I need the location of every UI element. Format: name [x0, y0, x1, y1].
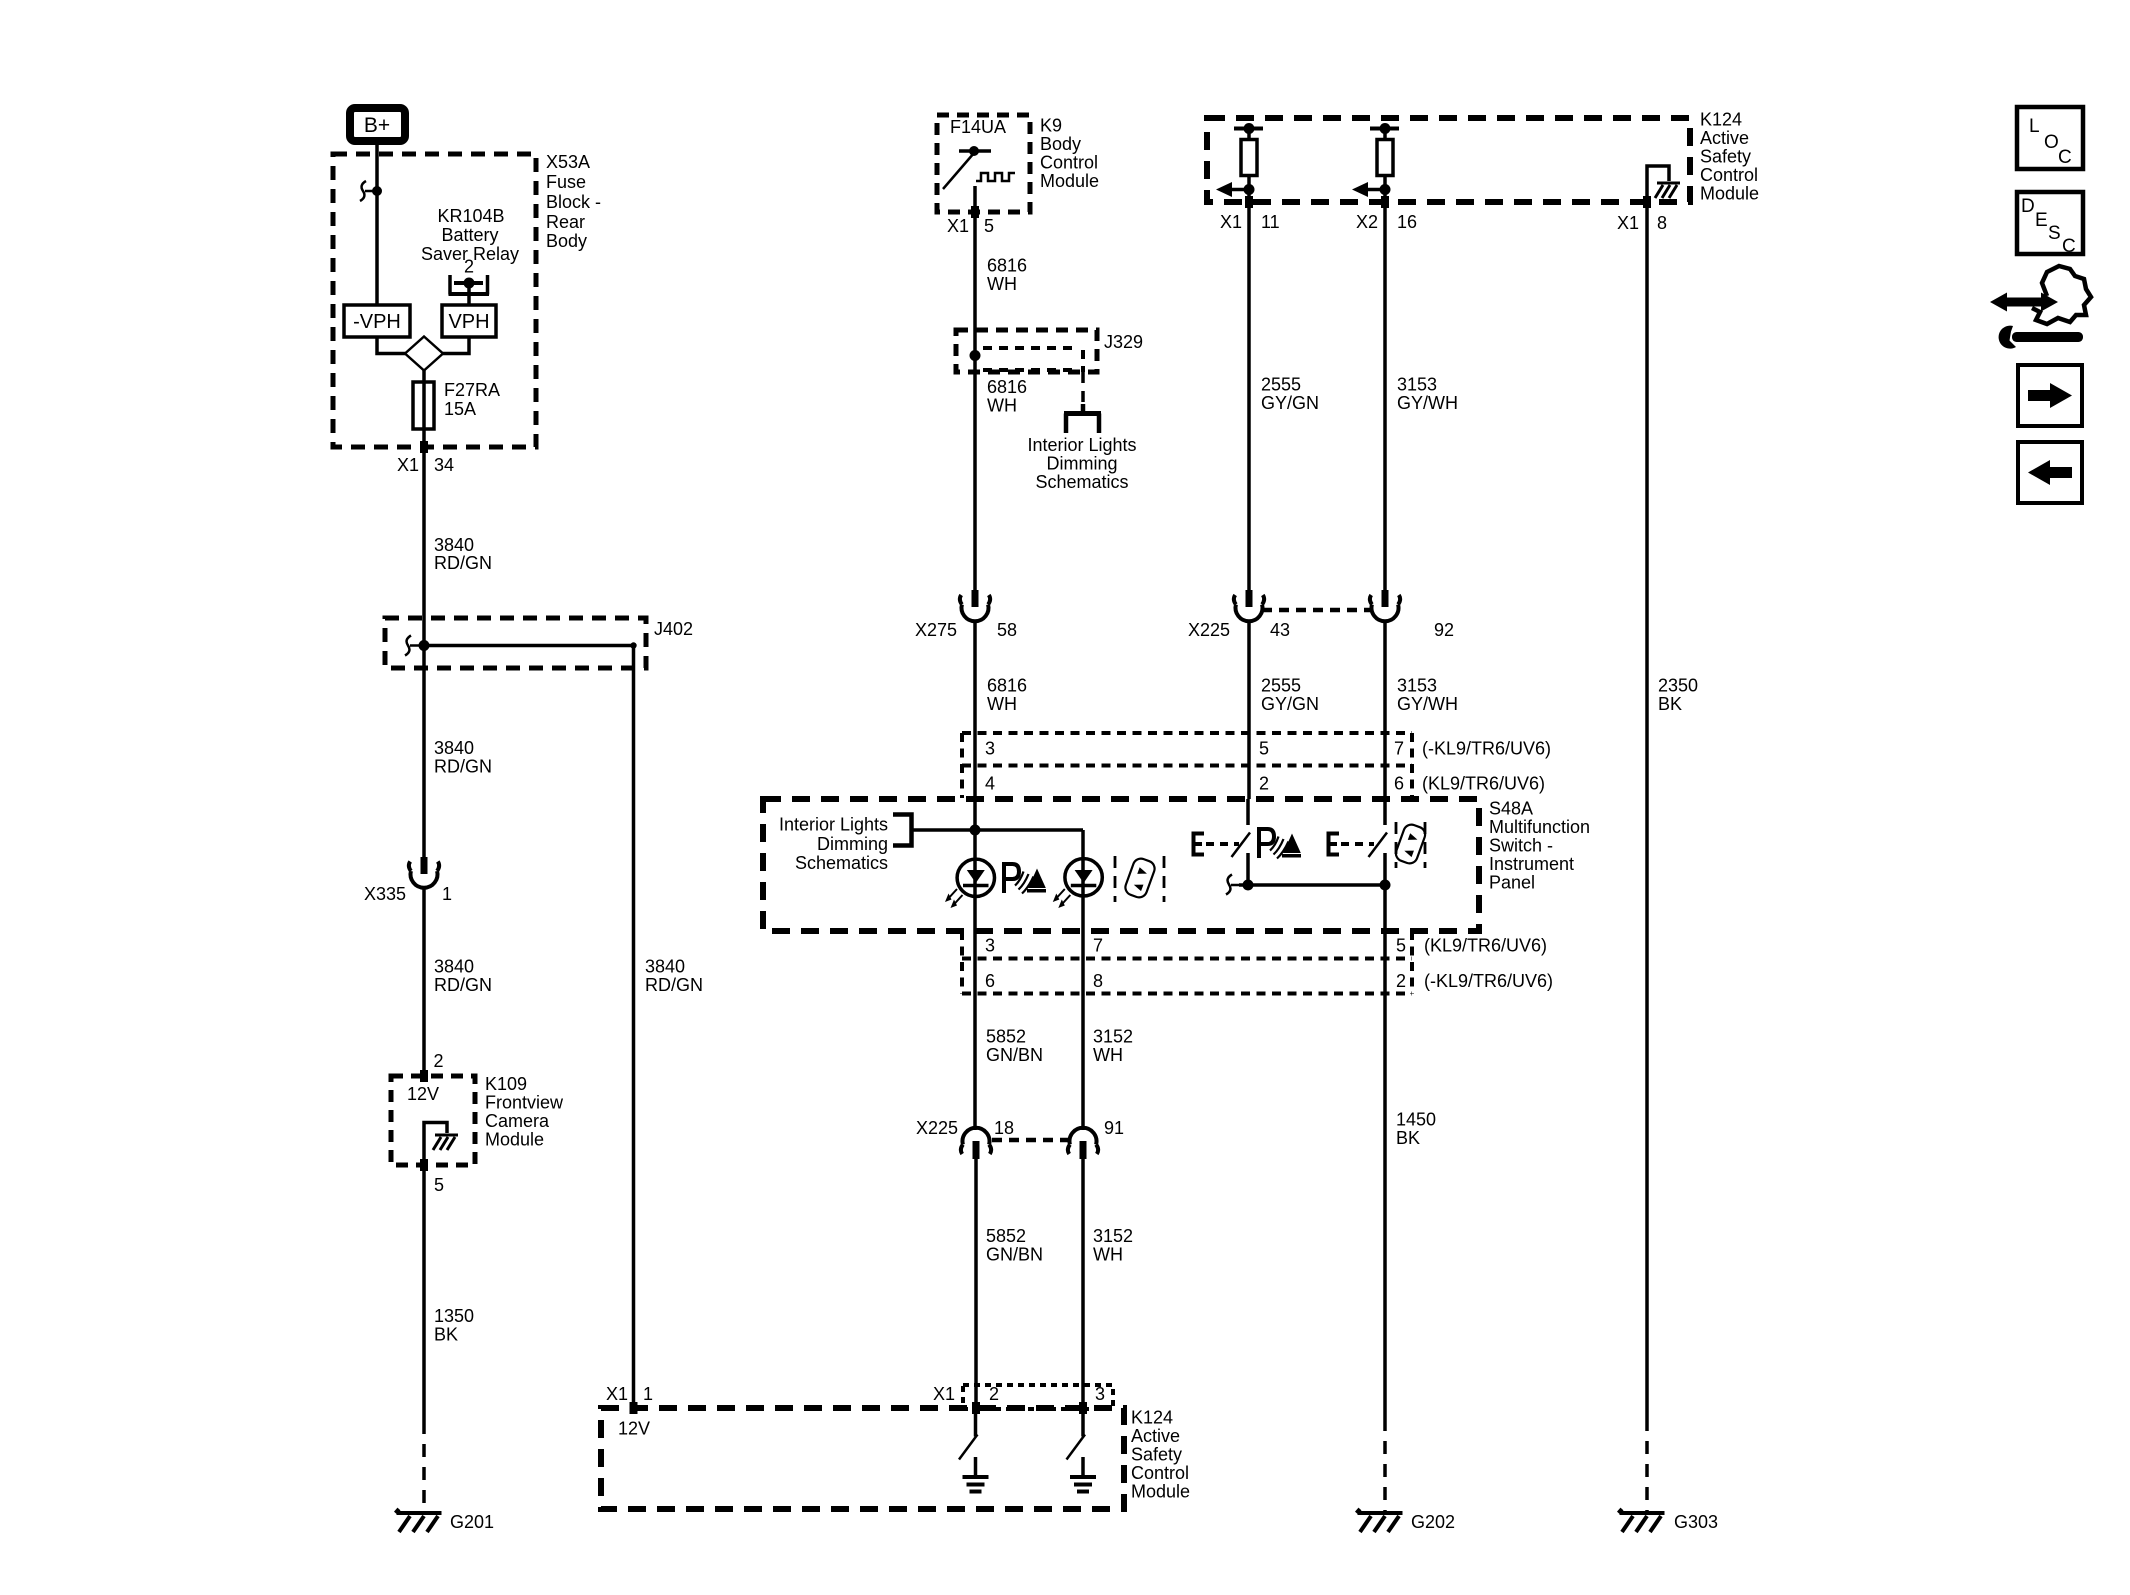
wire K124 X1-11 to X225-43 — [1247, 202, 1251, 590]
svg-text:Camera: Camera — [485, 1111, 550, 1131]
pin tick K124 X1-8 — [1643, 196, 1651, 208]
svg-text:3152: 3152 — [1093, 1226, 1133, 1246]
svg-text:GY/GN: GY/GN — [1261, 694, 1319, 714]
svg-text:GN/BN: GN/BN — [986, 1045, 1043, 1065]
svg-text:X225: X225 — [916, 1118, 958, 1138]
wire LED2 to X225-91 — [1081, 931, 1085, 1130]
svg-text:K109: K109 — [485, 1074, 527, 1094]
svg-text:5852: 5852 — [986, 1027, 1026, 1047]
svg-text:X1: X1 — [606, 1384, 628, 1404]
svg-text:(KL9/TR6/UV6): (KL9/TR6/UV6) — [1422, 774, 1545, 794]
connector X275 pin 58 — [960, 590, 990, 621]
svg-text:5: 5 — [434, 1175, 444, 1195]
svg-text:X335: X335 — [364, 884, 406, 904]
wire K109 to G201 — [422, 1165, 426, 1421]
svg-text:92: 92 — [1434, 620, 1454, 640]
svg-text:(KL9/TR6/UV6): (KL9/TR6/UV6) — [1424, 936, 1547, 956]
battery terminal B+ — [350, 108, 405, 141]
svg-text:Interior Lights: Interior Lights — [779, 815, 888, 835]
svg-text:6: 6 — [985, 971, 995, 991]
pin tick K124 X1-3 — [1079, 1402, 1087, 1414]
svg-text:12V: 12V — [407, 1084, 439, 1104]
pin label X1 5 — [947, 216, 994, 236]
svg-text:K124: K124 — [1131, 1408, 1173, 1428]
wire X225-92 to S48A — [1383, 622, 1387, 799]
wire -VPH to diamond — [377, 337, 405, 354]
connector X225 pin 92 — [1370, 590, 1400, 621]
svg-text:X1: X1 — [933, 1384, 955, 1404]
icon park assist 2 — [1259, 829, 1301, 859]
pin tick K109 pin 2 — [420, 1070, 428, 1082]
svg-text:6816: 6816 — [987, 377, 1027, 397]
svg-text:2: 2 — [989, 1384, 999, 1404]
dashed wire to G303 — [1645, 1418, 1649, 1513]
svg-text:6816: 6816 — [987, 676, 1027, 696]
clip symbol in J402 — [405, 636, 424, 656]
svg-text:3153: 3153 — [1397, 375, 1437, 395]
wire label 3840 RD/GN — [434, 957, 492, 996]
dashed wire to G201 — [422, 1421, 426, 1513]
wire label 3153 GY/WH — [1397, 375, 1458, 414]
icon lane keep 2 — [1394, 822, 1428, 868]
dotted connector rect X1 2-3 — [963, 1385, 1113, 1409]
wire X225-18 to K124 — [974, 1159, 978, 1408]
link wire between switches — [1239, 883, 1385, 887]
terminal box VPH — [442, 305, 496, 337]
label S48A Multifunction Switch - Instrument Panel — [1489, 799, 1590, 893]
svg-text:3153: 3153 — [1397, 676, 1437, 696]
pin tick F14UA X1-5 — [971, 206, 979, 218]
svg-text:C: C — [2058, 147, 2072, 168]
label K109 Frontview Camera Module — [485, 1074, 564, 1150]
arrow terminal R1 — [1216, 182, 1255, 197]
svg-text:Module: Module — [1700, 184, 1759, 204]
svg-text:15A: 15A — [444, 399, 476, 419]
svg-text:Module: Module — [485, 1130, 544, 1150]
svg-text:7: 7 — [1394, 739, 1404, 759]
svg-text:GN/BN: GN/BN — [986, 1245, 1043, 1265]
wire diamond to fuse — [422, 370, 426, 447]
svg-text:3152: 3152 — [1093, 1027, 1133, 1047]
svg-text:18: 18 — [994, 1118, 1014, 1138]
svg-text:B+: B+ — [364, 114, 390, 137]
pin tick K124 X1-11 — [1245, 196, 1253, 208]
svg-text:G201: G201 — [450, 1512, 494, 1532]
clip symbol at switch link — [1226, 875, 1239, 895]
svg-text:8: 8 — [1657, 213, 1667, 233]
wire label 6816 WH — [987, 256, 1027, 295]
bracket to dimming label — [893, 815, 912, 846]
svg-text:K9: K9 — [1040, 116, 1062, 136]
svg-text:WH: WH — [987, 396, 1017, 416]
pin tick K124 X1-2 — [972, 1402, 980, 1414]
svg-text:D: D — [2021, 196, 2035, 217]
label relay KR104B Battery Saver Relay — [421, 206, 519, 277]
node junction J402 — [419, 640, 430, 651]
svg-text:Safety: Safety — [1131, 1445, 1182, 1465]
node small dot at J402 branch corner — [630, 642, 636, 648]
svg-text:X225: X225 — [1188, 620, 1230, 640]
label F27RA 15A — [444, 380, 500, 419]
pin tick K109 pin 5 — [420, 1159, 428, 1171]
svg-text:X1: X1 — [1220, 212, 1242, 232]
fuse block X53A dashed box — [333, 154, 536, 447]
resistor R1 in K124 — [1234, 123, 1263, 202]
svg-text:Control: Control — [1131, 1463, 1189, 1483]
svg-text:Instrument: Instrument — [1489, 854, 1574, 874]
svg-text:3: 3 — [985, 936, 995, 956]
wire VPH to diamond — [443, 337, 469, 354]
node junction switch1 — [1243, 880, 1254, 891]
wire X275 to S48A — [973, 622, 977, 830]
resistor R2 in K124 — [1370, 123, 1399, 202]
svg-text:Control: Control — [1700, 165, 1758, 185]
svg-text:X275: X275 — [915, 620, 957, 640]
wire LED1 to X225-18 — [973, 931, 977, 1130]
K109 internal chassis ground — [433, 1135, 458, 1150]
svg-text:GY/WH: GY/WH — [1397, 393, 1458, 413]
svg-text:X1: X1 — [397, 455, 419, 475]
wire K124 X2-16 to X225-92 — [1383, 202, 1387, 590]
K124 internal chassis ground (X1-8) — [1647, 166, 1680, 202]
svg-text:Dimming: Dimming — [817, 834, 888, 854]
svg-text:1: 1 — [643, 1384, 653, 1404]
wire label 5852 GN/BN — [986, 1027, 1043, 1066]
off-page bracket (interior lights dimming) — [1064, 404, 1101, 433]
wire X225-43 to S48A — [1247, 622, 1251, 799]
svg-text:Safety: Safety — [1700, 147, 1751, 167]
svg-text:91: 91 — [1104, 1118, 1124, 1138]
connector X225 pin 18 (flipped) — [961, 1128, 991, 1159]
LED2 lane keep indicator — [1053, 859, 1103, 908]
svg-text:RD/GN: RD/GN — [434, 975, 492, 995]
svg-text:Control: Control — [1040, 153, 1098, 173]
wire label 2350 BK — [1658, 676, 1698, 715]
top rows pin numbers — [985, 739, 1551, 794]
wire label 3152 WH — [1093, 1226, 1133, 1265]
svg-text:3840: 3840 — [645, 957, 685, 977]
dashed wire J329 to schematics bracket — [1081, 372, 1085, 404]
wire K124 X1-8 to G303 — [1645, 202, 1649, 1418]
svg-text:16: 16 — [1397, 212, 1417, 232]
switch S48A dashed box — [763, 799, 1479, 931]
svg-text:3840: 3840 — [434, 535, 474, 555]
svg-text:Dimming: Dimming — [1046, 454, 1117, 474]
bottom rows pin numbers — [985, 936, 1553, 992]
svg-text:3840: 3840 — [434, 738, 474, 758]
svg-text:5852: 5852 — [986, 1226, 1026, 1246]
svg-text:J329: J329 — [1104, 332, 1143, 352]
svg-text:11: 11 — [1261, 212, 1280, 232]
label X335 1 — [364, 884, 452, 904]
wire label 3153 GY/WH — [1397, 676, 1458, 715]
dashed connector link X225 top — [1262, 608, 1372, 613]
wire label 6816 WH — [987, 676, 1027, 715]
svg-text:Fuse: Fuse — [546, 172, 586, 192]
arrow terminal R2 — [1352, 182, 1391, 197]
svg-text:Schematics: Schematics — [795, 853, 888, 873]
splice diamond — [405, 337, 443, 371]
connector X335 pin 1 — [409, 857, 439, 888]
svg-text:(-KL9/TR6/UV6): (-KL9/TR6/UV6) — [1424, 971, 1553, 991]
node junction on B+ feed — [372, 186, 382, 196]
wire B+ to -VPH — [375, 145, 379, 305]
connector X225 pin 91 (flipped) — [1068, 1128, 1098, 1159]
wire J402 branch to right and down — [424, 646, 634, 1409]
icon park assist (P with waves and triangle) — [1004, 864, 1046, 894]
terminal box -VPH — [344, 305, 410, 337]
fuse element F14UA — [943, 146, 1015, 212]
pin label X1 1 — [606, 1384, 653, 1404]
top connector rows (KL9/TR6/UV6) — [962, 733, 1412, 798]
svg-text:RD/GN: RD/GN — [645, 975, 703, 995]
icon box LOC — [2017, 107, 2083, 169]
label Interior Lights Dimming Schematics (S48A) — [779, 815, 888, 874]
svg-text:2555: 2555 — [1261, 676, 1301, 696]
svg-text:X1: X1 — [1617, 213, 1639, 233]
svg-text:BK: BK — [434, 1325, 458, 1345]
fuse F14UA / K9 dashed box — [937, 115, 1030, 212]
wire F14UA to X275 — [973, 212, 977, 590]
svg-text:F27RA: F27RA — [444, 380, 500, 400]
splice J402 dashed box — [385, 618, 646, 668]
icon box DESC — [2017, 192, 2083, 257]
pin label X1 34 — [397, 455, 454, 475]
label X53A Fuse Block - Rear Body — [546, 152, 601, 251]
svg-text:1350: 1350 — [434, 1306, 474, 1326]
svg-text:WH: WH — [987, 694, 1017, 714]
label X225 18 91 — [916, 1118, 1124, 1138]
switch1 actuator E-- — [1194, 834, 1240, 855]
fuse F27RA 15A — [413, 382, 434, 429]
svg-text:E: E — [2035, 210, 2048, 231]
connector X225 pin 43 — [1234, 590, 1264, 621]
wire label 3152 WH — [1093, 1027, 1133, 1066]
svg-text:GY/WH: GY/WH — [1397, 694, 1458, 714]
pin tick X53A X1-34 — [420, 441, 428, 453]
wire through LED1 — [973, 830, 977, 931]
svg-text:Module: Module — [1131, 1482, 1190, 1502]
svg-text:F14UA: F14UA — [950, 117, 1006, 137]
svg-text:(-KL9/TR6/UV6): (-KL9/TR6/UV6) — [1422, 739, 1551, 759]
svg-text:G303: G303 — [1674, 1512, 1718, 1532]
svg-text:Switch -: Switch - — [1489, 836, 1553, 856]
wire label 3840 RD/GN — [434, 535, 492, 573]
svg-text:3: 3 — [985, 739, 995, 759]
svg-text:VPH: VPH — [448, 311, 489, 333]
svg-text:5: 5 — [984, 216, 994, 236]
wire label 6816 WH — [987, 377, 1027, 416]
svg-text:WH: WH — [987, 274, 1017, 294]
svg-text:X2: X2 — [1356, 212, 1378, 232]
label X225 43 92 — [1188, 620, 1454, 640]
svg-text:RD/GN: RD/GN — [434, 553, 492, 573]
svg-text:Block -: Block - — [546, 192, 601, 212]
svg-text:C: C — [2062, 236, 2076, 257]
LED1 park assist indicator — [945, 859, 995, 908]
svg-text:Multifunction: Multifunction — [1489, 817, 1590, 837]
svg-text:58: 58 — [997, 620, 1017, 640]
K109 internal wire to chassis ground — [424, 1123, 447, 1166]
svg-text:Rear: Rear — [546, 212, 585, 232]
svg-text:2: 2 — [1396, 971, 1406, 991]
svg-text:2: 2 — [1259, 774, 1269, 794]
wire label 2555 GY/GN — [1261, 375, 1319, 414]
wire label 5852 GN/BN — [986, 1226, 1043, 1265]
splice J329 dashed box — [956, 330, 1097, 372]
label X275 58 — [915, 620, 1017, 640]
svg-text:2555: 2555 — [1261, 375, 1301, 395]
switch2 actuator E-- — [1329, 834, 1375, 855]
svg-text:6816: 6816 — [987, 256, 1027, 276]
icon lane keep assist (car between lane lines) — [1115, 856, 1164, 902]
wire label 1350 BK — [434, 1306, 474, 1345]
svg-text:KR104B: KR104B — [437, 206, 504, 226]
switch contact 2 (lane keep) in S48A — [1369, 799, 1388, 931]
svg-text:S48A: S48A — [1489, 799, 1533, 819]
svg-text:6: 6 — [1394, 774, 1404, 794]
svg-text:J402: J402 — [654, 619, 693, 639]
svg-text:RD/GN: RD/GN — [434, 757, 492, 777]
svg-text:GY/GN: GY/GN — [1261, 393, 1319, 413]
wire corner to LED2 — [1081, 830, 1085, 931]
relay KR104B terminal 2 symbol — [449, 275, 490, 305]
module K124 top dashed box — [1207, 118, 1690, 202]
svg-text:WH: WH — [1093, 1045, 1123, 1065]
icon box prev arrow — [2018, 442, 2082, 503]
wire label 3840 RD/GN — [434, 738, 492, 777]
svg-text:L: L — [2029, 116, 2040, 137]
switch to ground 1 in K124 — [959, 1408, 989, 1492]
svg-text:Active: Active — [1700, 128, 1749, 148]
svg-text:O: O — [2044, 132, 2059, 153]
node junction J329 — [970, 350, 981, 361]
svg-text:1: 1 — [442, 884, 452, 904]
svg-text:5: 5 — [1396, 936, 1406, 956]
svg-text:2350: 2350 — [1658, 676, 1698, 696]
pin tick K124 X2-16 — [1381, 196, 1389, 208]
svg-text:8: 8 — [1093, 971, 1103, 991]
bottom connector rows (KL9/TR6/UV6) — [962, 931, 1412, 994]
svg-text:X53A: X53A — [546, 152, 590, 172]
svg-text:12V: 12V — [618, 1419, 650, 1439]
ground G303 — [1619, 1509, 1665, 1532]
node junction switch2 — [1380, 880, 1391, 891]
module K109 dashed box — [391, 1076, 475, 1165]
svg-text:Body: Body — [1040, 134, 1081, 154]
svg-text:WH: WH — [1093, 1245, 1123, 1265]
ground G201 — [396, 1509, 442, 1532]
wire bracket to LED wires — [912, 828, 1084, 832]
pin labels X1 2 3 — [933, 1384, 1105, 1404]
svg-text:2: 2 — [434, 1051, 444, 1071]
label Interior Lights Dimming Schematics — [1027, 435, 1136, 492]
svg-text:2: 2 — [464, 257, 474, 277]
svg-text:Active: Active — [1131, 1426, 1180, 1446]
svg-text:-VPH: -VPH — [353, 311, 401, 333]
dashed connector link X225 — [992, 1138, 1068, 1143]
icon connector repair (arrow, outline, wrench) — [1990, 266, 2091, 349]
svg-text:34: 34 — [434, 455, 454, 475]
J329 internal dashed bus — [983, 348, 1083, 372]
wire X225-91 to K124 — [1081, 1159, 1085, 1408]
module K124 bottom dashed box — [601, 1408, 1124, 1509]
clip symbol on B+ feed — [360, 181, 377, 201]
svg-text:Module: Module — [1040, 171, 1099, 191]
svg-text:3840: 3840 — [434, 957, 474, 977]
svg-text:Panel: Panel — [1489, 873, 1535, 893]
wire label 3840 RD/GN (branch) — [645, 957, 703, 996]
svg-text:5: 5 — [1259, 739, 1269, 759]
svg-text:X1: X1 — [947, 216, 969, 236]
switch contact 1 (park assist) in S48A — [1232, 799, 1251, 885]
label K124 Active Safety Control Module (bottom) — [1131, 1408, 1190, 1502]
svg-text:Frontview: Frontview — [485, 1093, 564, 1113]
svg-text:Battery: Battery — [441, 225, 498, 245]
wire S48A switch2 to G202 — [1383, 931, 1387, 1418]
svg-text:3: 3 — [1095, 1384, 1105, 1404]
svg-text:Interior Lights: Interior Lights — [1027, 435, 1136, 455]
label K124 Active Safety Control Module (top) — [1700, 110, 1759, 204]
wire X335 to K109 — [422, 889, 426, 1076]
dashed wire to G202 — [1383, 1418, 1387, 1513]
pin labels X1 11 / X2 16 / X1 8 — [1220, 212, 1667, 233]
svg-text:4: 4 — [985, 774, 995, 794]
node junction on LED1 wire — [970, 825, 981, 836]
svg-text:BK: BK — [1396, 1128, 1420, 1148]
svg-text:Body: Body — [546, 231, 587, 251]
svg-text:7: 7 — [1093, 936, 1103, 956]
svg-text:G202: G202 — [1411, 1512, 1455, 1532]
svg-text:Schematics: Schematics — [1035, 472, 1128, 492]
ground G202 — [1357, 1509, 1403, 1532]
svg-text:K124: K124 — [1700, 110, 1742, 130]
label K9 Body Control Module — [1040, 116, 1099, 192]
svg-text:1450: 1450 — [1396, 1110, 1436, 1130]
icon box next arrow — [2018, 365, 2082, 426]
wire label 1450 BK — [1396, 1110, 1436, 1149]
switch to ground 2 in K124 — [1067, 1408, 1097, 1492]
wire X53A to X335 — [422, 447, 426, 857]
svg-text:S: S — [2048, 223, 2061, 244]
svg-text:BK: BK — [1658, 694, 1682, 714]
pin tick K124 X1-1 — [630, 1402, 638, 1414]
svg-text:43: 43 — [1270, 620, 1290, 640]
wire label 2555 GY/GN — [1261, 676, 1319, 715]
